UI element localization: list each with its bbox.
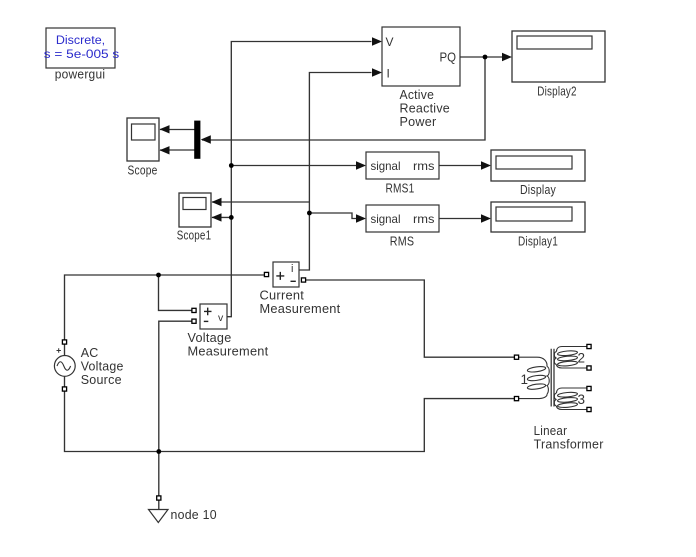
svg-text:v: v	[218, 312, 224, 324]
arrow into ARP I	[372, 68, 382, 76]
port ground	[157, 496, 161, 500]
port squares	[62, 272, 591, 500]
arrow into ARP V	[372, 37, 382, 45]
svg-text:AC: AC	[81, 346, 99, 360]
wire	[159, 321, 192, 496]
svg-text:Active: Active	[400, 88, 435, 102]
node I-bus to RMS	[307, 211, 312, 216]
wire	[202, 57, 485, 140]
svg-text:rms: rms	[413, 159, 435, 173]
AC Voltage Source V1	[54, 346, 123, 387]
wire	[160, 149, 195, 151]
primary winding 1	[519, 357, 547, 366]
port XF right 2a	[587, 344, 591, 348]
svg-text:signal: signal	[371, 212, 401, 226]
wire AC stub bottom	[64, 376, 66, 389]
wire	[212, 216, 231, 218]
arrow into Scope bottom	[160, 146, 170, 154]
wire	[158, 500, 160, 510]
wire	[227, 42, 372, 317]
node bottom junction	[156, 449, 161, 454]
demux (black bar)	[194, 121, 200, 159]
wire AC stub top	[64, 342, 66, 356]
port XF right 2b	[587, 366, 591, 370]
svg-text:powergui: powergui	[55, 68, 106, 82]
svg-text:Voltage: Voltage	[188, 331, 232, 345]
svg-text:V: V	[386, 35, 394, 49]
svg-text:Power: Power	[400, 115, 437, 129]
arrow into demux	[201, 135, 211, 143]
wire	[231, 165, 356, 167]
port XF right 3a	[587, 386, 591, 390]
arrow into Display2	[502, 53, 512, 61]
secondary winding 3	[557, 388, 587, 393]
port CM +	[264, 272, 268, 276]
node PQ junction	[483, 55, 488, 60]
wire	[65, 275, 265, 342]
wire	[212, 201, 309, 203]
display block Display2	[512, 31, 605, 99]
ground node 10	[149, 508, 217, 523]
arrow into RMS	[356, 214, 366, 222]
node V-bus to Scope1	[229, 215, 234, 220]
block RMS1	[366, 152, 439, 196]
arrow into Scope1 bottom	[212, 213, 222, 221]
svg-text:Linear: Linear	[534, 424, 568, 438]
svg-text:3: 3	[578, 392, 586, 407]
wire	[160, 129, 195, 131]
block RMS	[366, 205, 439, 249]
node V-bus to RMS1	[229, 163, 234, 168]
svg-text:signal: signal	[371, 159, 401, 173]
port VM -	[192, 319, 196, 323]
svg-text:Current: Current	[260, 289, 305, 303]
svg-text:i: i	[291, 263, 293, 275]
wire	[159, 275, 193, 310]
wire	[309, 213, 356, 219]
svg-text:Reactive: Reactive	[400, 102, 451, 116]
svg-text:node 10: node 10	[171, 508, 217, 522]
svg-text:PQ: PQ	[440, 51, 457, 65]
scope block Scope	[127, 118, 159, 178]
svg-text:1: 1	[521, 372, 529, 387]
scope block Scope1	[177, 193, 212, 243]
arrow into Display	[481, 161, 491, 169]
svg-text:I: I	[387, 67, 390, 81]
port AC top	[62, 340, 66, 344]
port XF right 3b	[587, 407, 591, 411]
svg-text:rms: rms	[413, 212, 435, 226]
svg-text:RMS: RMS	[390, 235, 415, 249]
svg-text:s = 5e-005 s: s = 5e-005 s	[44, 49, 120, 61]
wire	[460, 56, 503, 58]
svg-text:Display: Display	[520, 183, 556, 197]
svg-text:Discrete,: Discrete,	[56, 35, 105, 47]
secondary winding 2	[557, 347, 587, 352]
wire	[439, 218, 482, 220]
block Current Measurement	[260, 262, 341, 316]
arrow into RMS1	[356, 161, 366, 169]
op block: Active Reactive Power U1	[382, 27, 460, 129]
svg-text:Transformer: Transformer	[534, 437, 604, 451]
port XF left top	[514, 355, 518, 359]
display block Display	[491, 150, 585, 197]
svg-text:Source: Source	[81, 373, 122, 387]
wire	[65, 389, 515, 452]
svg-text:Scope1: Scope1	[177, 229, 212, 243]
display block Display1	[491, 202, 585, 249]
svg-text:Measurement: Measurement	[260, 302, 341, 316]
arrow into Display1	[481, 214, 491, 222]
svg-text:Scope: Scope	[128, 164, 158, 178]
svg-text:RMS1: RMS1	[386, 182, 415, 196]
arrow into Scope1 top	[212, 198, 222, 206]
Linear Transformer T1	[519, 347, 587, 410]
wire	[439, 165, 482, 167]
svg-text:Measurement: Measurement	[188, 345, 269, 359]
arrowheads	[160, 37, 513, 222]
port AC bottom	[62, 387, 66, 391]
block Voltage Measurement	[188, 304, 269, 359]
wire	[306, 280, 515, 357]
core	[551, 349, 554, 407]
svg-text:Display1: Display1	[518, 235, 558, 249]
port CM -	[301, 278, 305, 282]
port VM +	[192, 308, 196, 312]
port XF left bottom	[514, 397, 518, 401]
svg-text:Display2: Display2	[537, 85, 577, 99]
svg-text:2: 2	[578, 351, 586, 366]
powergui block	[44, 28, 120, 82]
arrow into Scope top	[160, 125, 170, 133]
svg-text:Voltage: Voltage	[81, 360, 124, 374]
wire	[299, 73, 372, 271]
node top-left junction	[156, 273, 161, 278]
